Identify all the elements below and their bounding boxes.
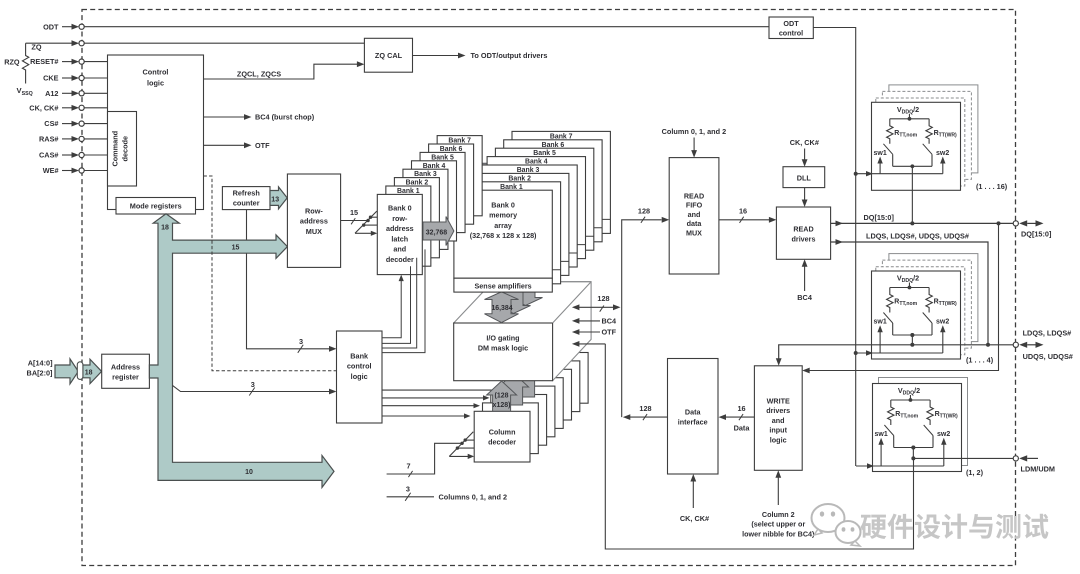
resistor RTT,nom [887,119,893,144]
input pin RESET# [30,57,107,66]
svg-text:WE#: WE# [43,166,59,175]
switch sw2 [924,425,933,436]
svg-text:ZQ CAL: ZQ CAL [375,51,403,60]
svg-text:sw2: sw2 [936,150,949,157]
svg-text:Sense amplifiers: Sense amplifiers [475,281,532,290]
svg-text:array: array [494,221,512,230]
svg-text:RAS#: RAS# [39,135,58,144]
termination network block 1 [855,102,961,190]
data bus 128 vertical [622,207,670,418]
svg-text:and: and [772,416,785,425]
termination network block 2 echo layers [876,254,978,355]
svg-text:ODT: ODT [43,22,59,31]
svg-text:32,768: 32,768 [426,229,448,236]
svg-text:sw2: sw2 [937,431,950,438]
sense amplifiers strip [454,278,552,292]
svg-text:(1 . . . 4): (1 . . . 4) [966,356,994,365]
svg-text:18: 18 [161,224,169,231]
svg-text:128: 128 [639,404,651,413]
watermark text [861,514,1049,539]
svg-text:decoder: decoder [386,255,414,264]
wire Column 0,1,2 to READ FIFO [662,127,726,158]
svg-text:drivers: drivers [766,406,790,415]
termination network block 1 echo layers [876,85,978,186]
svg-text:logic: logic [770,435,787,444]
memory array bank stack (banks 1-7) [462,131,610,283]
svg-text:CK, CK#: CK, CK# [29,103,58,112]
svg-text:address: address [386,224,414,233]
input pin WE# [43,166,108,175]
svg-text:CKE: CKE [43,74,59,83]
wire OTF into I/O gating [572,328,617,337]
net DQS pad line to WRITE drivers [776,343,1016,366]
svg-text:BC4 (burst chop): BC4 (burst chop) [255,113,315,122]
teal refresh counter arrow 13 [270,187,287,209]
svg-text:LDM/UDM: LDM/UDM [1021,464,1055,473]
svg-text:(32,768 x 128 x 128): (32,768 x 128 x 128) [470,231,537,240]
svg-text:(1, 2): (1, 2) [966,468,984,477]
wire ODT switch feed 1 [855,173,943,175]
resistor RTT,nom [888,400,894,425]
svg-text:(select upper or: (select upper or [751,520,805,529]
wire CK, CK# to DLL [790,138,819,167]
wire ODT switch feed 3 [856,465,944,467]
svg-text:128: 128 [597,294,609,303]
svg-text:row-: row- [392,214,408,223]
termination network block 2 [855,271,961,359]
pad DQ[15:0] [1013,220,1052,238]
DLL block [783,167,825,188]
svg-text:CK, CK#: CK, CK# [790,138,819,147]
input pin ODT [43,22,769,31]
svg-text:7: 7 [406,462,410,471]
bus (128 x128) echo arrows [499,365,541,405]
resistor RTT,nom [887,288,893,313]
svg-text:READ: READ [684,191,704,200]
resistor RTT(WR) [926,119,932,144]
resistor RTT(WR) [926,288,932,313]
bus 32768 echo arrows (banks 1-7) [431,158,512,237]
svg-text:x128): x128) [493,402,511,409]
bus 16 Data write drivers to data interface [719,404,755,433]
input pin CK, CK# [29,103,107,112]
wire BC4 to READ drivers [797,259,813,302]
wire refresh counter to bank control (3) [247,210,337,353]
termination network block 3 [856,384,962,472]
wire OTF output [204,141,271,150]
input pin A12 [45,89,107,98]
svg-text:DQ[15:0]: DQ[15:0] [1021,230,1052,239]
wire to ODT/output drivers [413,51,548,60]
net DQ[15:0] from READ drivers to pad [831,213,1016,226]
svg-text:READ: READ [793,225,813,234]
svg-text:A[14:0]: A[14:0] [28,358,53,367]
address register block [102,354,150,388]
input pin CKE [43,74,107,83]
wire termination 3 center tap to DM line [911,446,915,461]
svg-text:3: 3 [299,337,303,346]
ZQ CAL block [364,38,412,72]
svg-text:CS#: CS# [44,119,58,128]
bank 0 memory array block [454,190,552,278]
svg-text:sw1: sw1 [874,150,887,157]
svg-text:logic: logic [147,79,164,88]
svg-text:15: 15 [350,208,358,217]
svg-text:counter: counter [233,199,260,208]
net DQ write path to WRITE drivers [802,221,1000,373]
svg-text:RZQ: RZQ [4,58,20,67]
wire Column 2 select to WRITE drivers [742,470,815,538]
input pin CAS# [39,151,107,160]
input pin ZQ [26,40,365,51]
refresh counter block [222,187,270,210]
svg-text:and: and [688,210,701,219]
svg-text:RESET#: RESET# [30,57,58,66]
svg-text:CAS#: CAS# [39,151,58,160]
switch sw2 [923,313,932,324]
row-address MUX block [287,174,340,267]
svg-text:and: and [393,245,406,254]
svg-text:Control: Control [143,68,169,77]
mode registers block [116,198,196,215]
svg-text:15: 15 [232,245,240,252]
svg-text:Columns 0, 1, and 2: Columns 0, 1, and 2 [439,493,508,502]
junction ODT feed 2 [854,351,858,355]
svg-text:ZQ: ZQ [31,43,41,52]
termination network block 3 echo layers [879,378,968,466]
wire termination 1 center tap to DQ line [910,166,914,225]
svg-text:A12: A12 [45,89,58,98]
svg-text:128: 128 [638,207,650,216]
wires bank control to column decoder layers [382,390,499,419]
column decoder stack (layers 1-7) [483,353,589,454]
svg-text:(128: (128 [494,393,508,400]
svg-text:13: 13 [271,197,279,204]
dashed control path control logic to bank control [204,176,337,371]
svg-text:Bank 0: Bank 0 [491,201,515,210]
svg-text:CK, CK#: CK, CK# [680,514,709,523]
svg-text:BA[2:0]: BA[2:0] [27,368,54,377]
svg-text:ZQCL, ZQCS: ZQCL, ZQCS [237,70,281,79]
input pin CS# [44,119,107,128]
svg-text:decode: decode [121,136,130,162]
wire BA[2:0] 3 to bank control [173,380,337,396]
svg-text:3: 3 [406,485,410,494]
svg-text:10: 10 [245,469,253,476]
svg-text:DLL: DLL [797,173,812,182]
WRITE drivers block [754,366,802,471]
svg-text:UDQS, UDQS#: UDQS, UDQS# [1023,352,1073,361]
wire BC4 (burst chop) output [204,113,315,122]
input pin RAS# [39,135,107,144]
svg-text:16,384: 16,384 [491,305,512,312]
Data interface block [668,359,719,475]
resistor RZQ [4,43,29,83]
wire 7 column address fan [387,432,475,477]
bus 128 I/O gating to data bus [572,294,621,312]
svg-text:BC4: BC4 [602,317,618,326]
svg-text:OTF: OTF [255,141,270,150]
svg-text:3: 3 [251,380,255,389]
svg-text:OTF: OTF [602,328,617,337]
wire 15 row address fan to bank latches [341,208,378,236]
svg-text:control: control [347,362,372,371]
wire ODT switch feed 2 [855,352,943,354]
bank 0 row-address latch and decoder block [377,194,422,274]
svg-text:To ODT/output drivers: To ODT/output drivers [471,51,548,60]
ODT control block [769,17,813,39]
READ drivers block [776,207,830,259]
svg-text:Bank 0: Bank 0 [388,204,412,213]
watermark wechat icon [812,504,861,546]
svg-text:LDQS, LDQS#: LDQS, LDQS# [1023,328,1072,337]
wires bank control to bank latches [382,249,425,352]
bus 16,384 sense amp to I/O gating arrows [485,276,543,323]
svg-text:MUX: MUX [306,227,322,236]
svg-text:control: control [779,28,803,37]
svg-text:Address: Address [111,363,140,372]
svg-text:Column 0, 1, and 2: Column 0, 1, and 2 [662,127,726,136]
switch sw1 [883,144,892,155]
svg-text:logic: logic [351,372,368,381]
svg-text:sw1: sw1 [874,319,887,326]
bus A[14:0] BA[2:0] input arrow [27,358,102,384]
net LDQS/UDQS from READ drivers [831,232,988,345]
svg-text:Refresh: Refresh [233,189,260,198]
svg-text:Command: Command [111,131,120,167]
svg-text:drivers: drivers [792,235,816,244]
svg-text:sw1: sw1 [875,431,888,438]
wire ZQCL, ZQCS from control logic to ZQ CAL [204,61,365,79]
svg-text:LDQS, LDQS#, UDQS, UDQS#: LDQS, LDQS#, UDQS, UDQS# [866,232,969,241]
wire ODT control to termination switches [813,28,855,467]
svg-text:MUX: MUX [686,229,702,238]
svg-text:ODT: ODT [783,19,799,28]
wire 3 Columns 0, 1, and 2 stub [387,485,507,502]
svg-text:(1 . . . 16): (1 . . . 16) [976,182,1008,191]
junction ODT feed 1 [854,172,858,176]
svg-text:16: 16 [737,404,745,413]
bus 16 READ FIFO to READ drivers [719,207,777,223]
svg-text:DM mask logic: DM mask logic [478,344,528,353]
svg-text:WRITE: WRITE [767,397,790,406]
wire DLL to READ drivers [802,188,808,207]
pad LDQS/UDQS [1013,328,1073,361]
bus 32,768 row decode arrow [423,217,454,246]
svg-text:Column 2: Column 2 [762,510,795,519]
svg-text:Mode registers: Mode registers [130,202,182,211]
bus 128 data interface to data bus [623,404,668,420]
svg-text:latch: latch [391,234,408,243]
command decode block [108,112,137,187]
wire DM mask input into I/O gating [572,341,605,347]
row-address latch bank stack (banks 1-7) [386,136,482,267]
switch sw1 [883,313,892,324]
svg-text:sw2: sw2 [936,319,949,326]
I/O gating DM mask logic block [454,282,591,381]
svg-text:Column: Column [489,428,516,437]
svg-text:Bank: Bank [350,352,369,361]
bank control logic block [337,331,383,423]
svg-text:address: address [300,217,328,226]
svg-text:18: 18 [85,369,93,376]
bus (128 x128) column decode arrow [487,381,517,411]
svg-text:memory: memory [489,211,517,220]
control logic block [108,55,204,210]
column decoder block [474,411,530,462]
svg-text:Data: Data [734,424,751,433]
svg-text:I/O gating: I/O gating [486,334,519,343]
svg-text:register: register [112,373,139,382]
wire termination 2 center tap to DQS line [910,333,914,347]
READ FIFO block [669,158,719,274]
svg-text:DQ[15:0]: DQ[15:0] [864,213,895,222]
switch sw1 [884,425,893,436]
svg-text:decoder: decoder [488,438,516,447]
teal address bus trunk with 18/15/10 branches [149,214,334,488]
svg-text:BC4: BC4 [797,293,813,302]
wire CK, CK# to data interface [680,474,709,523]
pad LDM/UDM [1013,455,1055,473]
svg-text:data: data [687,219,703,228]
svg-text:lower nibble for BC4): lower nibble for BC4) [742,529,815,538]
switch sw2 [923,144,932,155]
resistor RTT(WR) [927,400,933,425]
svg-text:input: input [769,426,787,435]
svg-text:interface: interface [678,418,708,427]
svg-text:Row-: Row- [305,207,323,216]
svg-text:Data: Data [685,408,702,417]
svg-text:FIFO: FIFO [686,201,703,210]
wire BC4 into I/O gating [572,317,617,326]
net LDM/UDM DM mask path [605,344,1016,549]
svg-text:16: 16 [739,207,747,216]
